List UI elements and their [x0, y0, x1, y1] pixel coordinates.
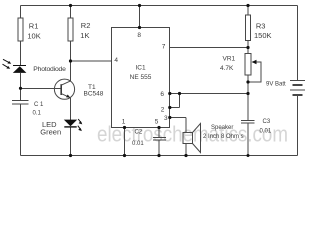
svg-text:R2: R2	[81, 21, 91, 30]
svg-text:2: 2	[161, 107, 165, 114]
svg-text:8: 8	[137, 32, 141, 39]
svg-text:C 1: C 1	[34, 102, 44, 108]
svg-text:0.01: 0.01	[260, 129, 272, 135]
svg-text:IC1: IC1	[135, 64, 146, 71]
svg-text:R3: R3	[256, 22, 266, 31]
svg-text:150K: 150K	[254, 31, 272, 40]
svg-text:C2: C2	[135, 130, 143, 136]
svg-text:BC548: BC548	[84, 91, 104, 98]
svg-text:9V Batt: 9V Batt	[266, 82, 286, 88]
svg-text:Photodiode: Photodiode	[33, 66, 66, 73]
svg-text:10K: 10K	[27, 32, 40, 41]
svg-text:R1: R1	[29, 22, 39, 31]
svg-text:5: 5	[155, 119, 159, 126]
svg-text:3: 3	[164, 115, 168, 122]
svg-text:1: 1	[122, 119, 126, 126]
svg-text:0.1: 0.1	[33, 111, 42, 117]
svg-text:6: 6	[160, 91, 164, 98]
svg-text:7: 7	[162, 44, 166, 51]
svg-text:Speaker: Speaker	[211, 125, 233, 131]
svg-text:Green: Green	[40, 128, 61, 137]
svg-text:4: 4	[114, 57, 118, 64]
svg-text:2 Inch 8 Ohm s: 2 Inch 8 Ohm s	[203, 134, 244, 140]
svg-text:C3: C3	[263, 119, 271, 125]
svg-text:0.01: 0.01	[132, 141, 144, 147]
svg-text:NE 555: NE 555	[130, 74, 152, 81]
svg-text:VR1: VR1	[223, 56, 236, 63]
svg-text:4.7K: 4.7K	[220, 65, 234, 72]
svg-text:1K: 1K	[80, 31, 89, 40]
